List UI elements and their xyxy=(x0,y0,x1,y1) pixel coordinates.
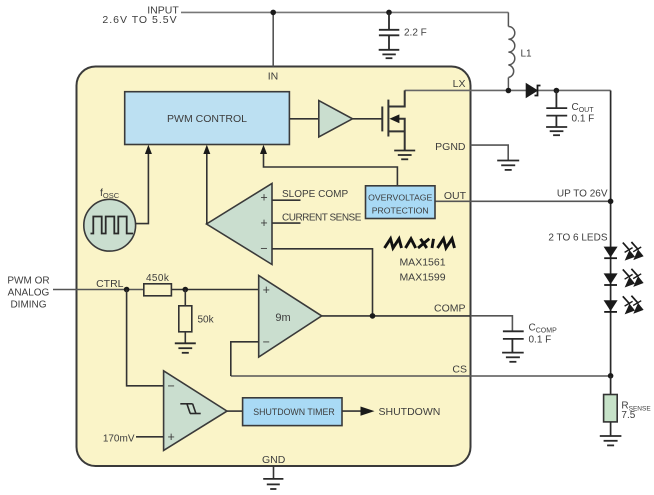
junction CTRL xyxy=(124,287,130,293)
node INPUT label xyxy=(102,5,179,27)
pin PGND wire xyxy=(471,145,509,160)
ground PGND xyxy=(497,161,519,170)
junction R1/R2 xyxy=(183,287,189,293)
junction D1/COUT xyxy=(554,88,560,94)
resistor R1 450k xyxy=(144,284,172,296)
svg-text:OUT: OUT xyxy=(444,190,467,202)
arrowhead shutdown xyxy=(361,407,375,416)
wire ctrl to shutdown comparator xyxy=(127,290,164,386)
svg-text:2.6V TO 5.5V: 2.6V TO 5.5V xyxy=(102,14,177,26)
wire ovp to pwm arrow3 xyxy=(264,153,398,186)
svg-text:GND: GND xyxy=(262,454,286,466)
svg-text:SHUTDOWN TIMER: SHUTDOWN TIMER xyxy=(253,407,334,417)
svg-text:CTRL: CTRL xyxy=(96,278,124,290)
svg-text:PWM CONTROL: PWM CONTROL xyxy=(167,113,247,125)
buffer U2 xyxy=(319,101,353,137)
wire U3 minus to comp node xyxy=(272,249,373,316)
wire CS net xyxy=(231,375,611,377)
svg-text:PROTECTION: PROTECTION xyxy=(372,206,429,216)
LED D4 light arrows xyxy=(623,296,643,314)
block PWM CONTROL U1a xyxy=(125,92,290,145)
svg-text:7.5: 7.5 xyxy=(621,410,635,421)
fosc square wave xyxy=(91,217,134,234)
wire U5 out to timer xyxy=(227,410,243,412)
ground below R2 xyxy=(175,343,196,353)
amplifier U4 9m xyxy=(259,276,322,358)
wire U4 minus feedback xyxy=(231,342,259,376)
svg-text:0.1 F: 0.1 F xyxy=(529,335,552,346)
junction COMP node xyxy=(370,313,376,319)
wire rsense top xyxy=(610,376,612,395)
wire slope comp stub xyxy=(272,199,301,201)
capacitor CCOMP xyxy=(503,331,524,352)
inductor L1 xyxy=(508,12,514,90)
block OVERVOLTAGE PROTECTION xyxy=(366,186,436,219)
arrowhead 1 xyxy=(145,145,152,154)
svg-text:−: − xyxy=(168,379,175,393)
LED D2 light arrows xyxy=(623,242,643,260)
svg-text:LX: LX xyxy=(453,78,466,90)
svg-text:COMP: COMP xyxy=(434,303,466,315)
svg-text:IN: IN xyxy=(268,71,279,83)
ground below Q1 xyxy=(394,151,415,160)
label PWM OR ANALOG DIMING xyxy=(7,276,49,311)
capacitor COUT xyxy=(546,91,567,128)
svg-text:CCOMP: CCOMP xyxy=(529,323,558,335)
resistor R2 50k xyxy=(179,306,192,332)
svg-text:9m: 9m xyxy=(275,312,290,324)
wire r2 to ground xyxy=(184,332,186,344)
LED D2 xyxy=(604,247,618,259)
wire OUT pin to rail xyxy=(435,200,611,202)
LED D3 light arrows xyxy=(623,269,643,287)
wire U3 output up arrow2 xyxy=(206,153,208,225)
svg-text:+: + xyxy=(263,283,270,297)
svg-text:MAX1599: MAX1599 xyxy=(399,272,445,284)
wire rsense bottom xyxy=(610,422,612,436)
svg-text:450k: 450k xyxy=(146,273,170,284)
arrowhead 2 xyxy=(203,145,210,154)
svg-text:CS: CS xyxy=(452,364,467,376)
oscillator fosc xyxy=(84,199,136,251)
wire r1 to node xyxy=(171,289,258,291)
svg-text:2.2 F: 2.2 F xyxy=(404,28,427,39)
wire fosc to pwm arrow1 xyxy=(136,153,149,224)
wire 170mV to U5 plus xyxy=(136,436,164,438)
arrowhead 3 xyxy=(260,145,267,154)
wire current sense stub xyxy=(272,222,301,224)
junction OUT rail xyxy=(608,199,614,205)
wire OUT rail down xyxy=(610,91,612,376)
diode D1 schottky xyxy=(526,84,540,98)
comparator U3 slope/current xyxy=(207,183,273,264)
svg-text:+: + xyxy=(260,216,267,230)
wire ctrl input xyxy=(53,289,144,291)
svg-text:SHUTDOWN: SHUTDOWN xyxy=(379,406,441,418)
svg-text:UP TO 26V: UP TO 26V xyxy=(557,189,608,200)
svg-text:L1: L1 xyxy=(521,49,533,60)
logo MAXIM xyxy=(385,239,455,248)
svg-text:PWM OR: PWM OR xyxy=(7,276,49,287)
ground below RSENSE xyxy=(600,436,622,445)
svg-text:−: − xyxy=(263,335,270,349)
wire GND pin xyxy=(273,466,275,479)
transistor Q1 nmos xyxy=(382,90,404,150)
wire to r2 xyxy=(184,290,186,306)
junction input/C1 xyxy=(386,10,392,16)
ground below COUT xyxy=(546,127,567,135)
capacitor C1 2.2uF xyxy=(379,12,399,49)
wire U4 output COMP xyxy=(322,315,471,317)
svg-text:2 TO 6 LEDS: 2 TO 6 LEDS xyxy=(548,233,607,244)
wire pwm to buffer xyxy=(289,118,318,120)
wire LX net xyxy=(405,89,611,91)
wire timer to shutdown arrow xyxy=(342,410,361,412)
svg-text:50k: 50k xyxy=(198,315,215,326)
ground GND xyxy=(263,479,283,489)
junction input/IN xyxy=(270,10,276,16)
svg-text:PGND: PGND xyxy=(435,141,466,153)
wire COMP pin external xyxy=(471,316,513,332)
svg-text:0.1 F: 0.1 F xyxy=(572,114,595,125)
junction CS/RSENSE xyxy=(608,373,614,379)
svg-text:OVERVOLTAGE: OVERVOLTAGE xyxy=(368,193,432,203)
svg-text:+: + xyxy=(260,191,267,205)
block SHUTDOWN TIMER xyxy=(243,398,342,426)
svg-text:COUT: COUT xyxy=(572,102,595,114)
svg-text:+: + xyxy=(168,430,175,444)
ground below C1 xyxy=(379,50,400,58)
svg-text:170mV: 170mV xyxy=(103,433,135,444)
LED D4 xyxy=(604,300,618,312)
ground below CCOMP xyxy=(502,353,524,362)
Q1 body arrow xyxy=(389,114,399,123)
U5 hysteresis symbol xyxy=(180,404,200,414)
junction L1/LX xyxy=(506,88,512,94)
resistor RSENSE 7.5 xyxy=(604,395,618,422)
svg-text:CURRENT SENSE: CURRENT SENSE xyxy=(282,213,362,224)
svg-text:SLOPE COMP: SLOPE COMP xyxy=(282,189,348,200)
svg-text:−: − xyxy=(260,242,267,256)
svg-text:MAX1561: MAX1561 xyxy=(399,257,445,269)
IC body MAX1561/MAX1599 xyxy=(77,67,471,467)
comparator U5 shutdown xyxy=(164,371,227,451)
wire IN drop xyxy=(272,12,274,66)
wire input rail xyxy=(181,11,508,13)
wire buffer to gate xyxy=(353,118,383,120)
LED D3 xyxy=(604,273,618,285)
svg-text:DIMING: DIMING xyxy=(10,300,46,311)
svg-text:ANALOG: ANALOG xyxy=(8,288,50,299)
